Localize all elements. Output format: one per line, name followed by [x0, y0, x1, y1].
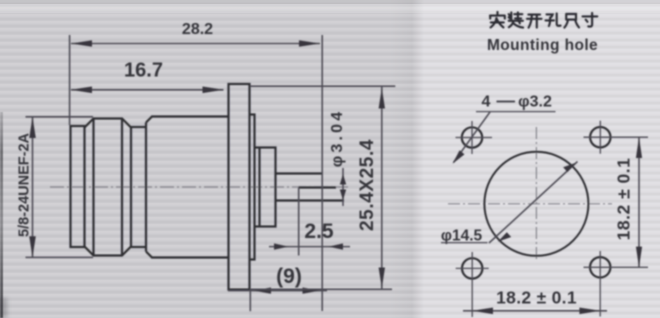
svg-text:5/8-24UNEF-2A: 5/8-24UNEF-2A	[17, 132, 33, 236]
front ring	[71, 126, 85, 247]
main body	[146, 117, 229, 258]
svg-text:(9): (9)	[276, 265, 302, 288]
dimension 25.4X25.4	[250, 86, 395, 289]
svg-text:Mounting hole: Mounting hole	[487, 37, 598, 54]
svg-text:25.4X25.4: 25.4X25.4	[357, 139, 378, 231]
dimension 2.5	[269, 243, 350, 249]
安	[490, 12, 505, 27]
insulator bushing	[255, 148, 276, 227]
big circle centerlines	[448, 127, 612, 262]
svg-text:φ14.5: φ14.5	[441, 228, 483, 245]
hole bottom-right	[590, 257, 610, 277]
neck groove	[131, 127, 146, 247]
leader to top-left hole	[453, 112, 491, 164]
hole bottom-left	[462, 258, 482, 278]
开	[527, 15, 542, 28]
dimension 5/8-24UNEF-2A thread	[26, 117, 94, 258]
dimension 18.2 bottom	[463, 308, 607, 315]
svg-text:4: 4	[482, 94, 491, 111]
svg-text:2.5: 2.5	[304, 220, 334, 243]
孔	[546, 13, 561, 26]
寸	[583, 13, 598, 27]
hole top-right	[590, 127, 610, 147]
diameter arrow phi 14.5	[489, 162, 578, 244]
dimension (9)	[228, 287, 327, 293]
title Chinese: 安装开孔尺寸	[490, 12, 597, 28]
dimension phi 3.04	[340, 168, 346, 206]
svg-text:φ3.2: φ3.2	[518, 94, 552, 111]
extension line front face	[69, 35, 71, 125]
flange	[229, 84, 250, 290]
extension line pin end	[321, 35, 323, 311]
centerline left view	[50, 186, 348, 188]
dimension 28.2	[71, 40, 320, 47]
rear washer	[250, 115, 255, 260]
dimension 18.2 right	[636, 137, 642, 267]
center pin with solder cup	[276, 174, 345, 201]
svg-text:φ3.04: φ3.04	[329, 109, 346, 168]
尺	[564, 14, 579, 28]
extension line flange rear	[249, 290, 251, 312]
coupling nut barrel	[85, 119, 132, 256]
svg-text:18.2 ± 0.1: 18.2 ± 0.1	[614, 158, 634, 241]
svg-text:28.2: 28.2	[182, 21, 213, 38]
extension line solder cup slot	[298, 188, 300, 256]
hole top-left	[462, 127, 482, 147]
dimension 16.7	[71, 87, 224, 94]
svg-text:18.2 ± 0.1: 18.2 ± 0.1	[496, 288, 577, 308]
装	[509, 12, 523, 27]
svg-text:16.7: 16.7	[124, 60, 163, 82]
mounting circle phi 14.5	[484, 152, 588, 256]
